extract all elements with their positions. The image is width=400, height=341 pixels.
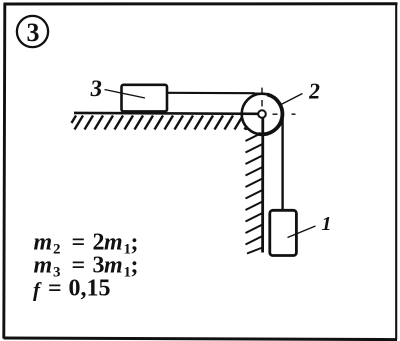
- svg-text:2: 2: [53, 242, 61, 258]
- svg-text:;: ;: [131, 253, 139, 279]
- svg-text:1: 1: [322, 213, 332, 235]
- svg-text:=: =: [48, 276, 62, 302]
- svg-text:3: 3: [27, 18, 40, 47]
- svg-text:0,15: 0,15: [69, 276, 111, 302]
